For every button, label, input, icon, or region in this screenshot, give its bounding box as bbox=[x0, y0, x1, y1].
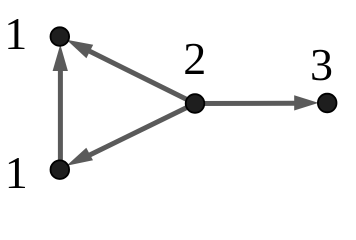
wire edge from node 2 to node 1(top), arrow at top-left bbox=[67, 40, 196, 104]
svg-text:1: 1 bbox=[5, 147, 28, 198]
node 3 (right) bbox=[318, 94, 337, 113]
svg-text:3: 3 bbox=[310, 39, 333, 90]
node 2 (middle) bbox=[186, 94, 205, 113]
node 1 (top left) bbox=[51, 27, 70, 46]
wire edge from node 1(bottom) to node 1(top), arrow up bbox=[53, 45, 68, 171]
node 1 (bottom left) bbox=[51, 160, 70, 179]
wire edge from node 2 to node 1(bottom), arrow at bottom-left bbox=[67, 104, 196, 166]
wire edge from node 2 to node 3, arrow at right bbox=[195, 95, 319, 110]
svg-text:2: 2 bbox=[183, 33, 206, 84]
svg-text:1: 1 bbox=[4, 8, 27, 59]
